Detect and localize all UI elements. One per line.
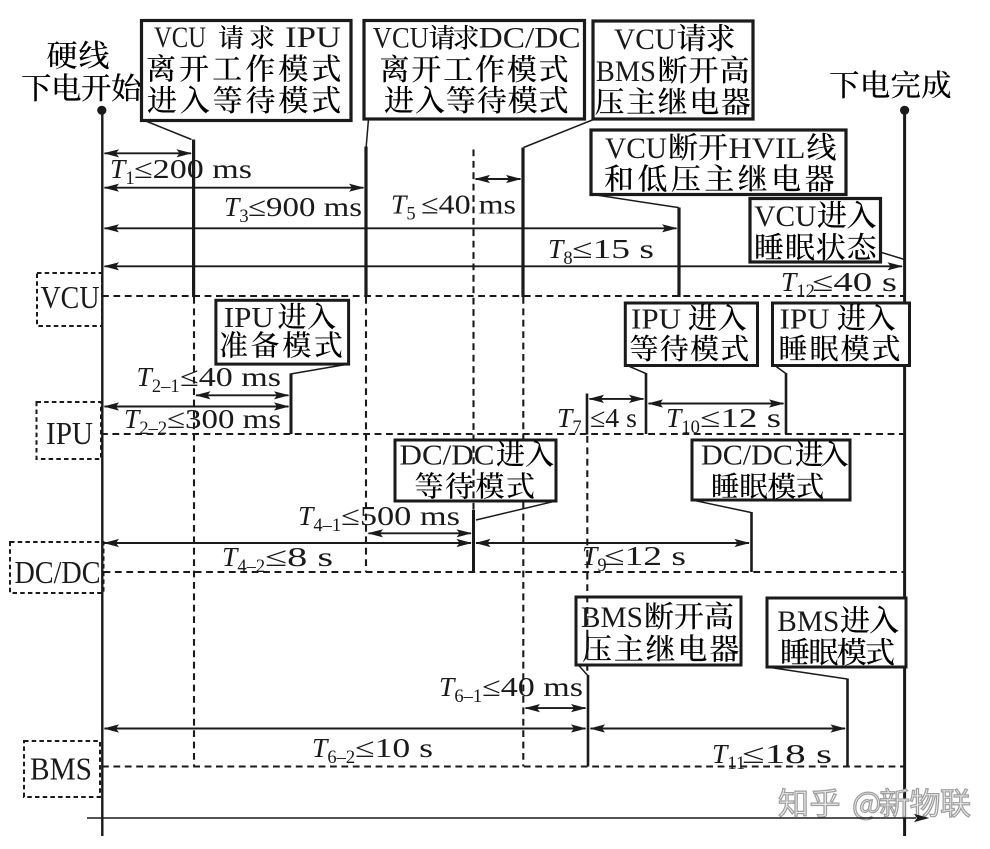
wire: DC/DC row dashed baseline <box>104 571 905 573</box>
tick: IPU wait event (x=646) <box>645 373 648 434</box>
tick: DC/DC sleep event (x=751.5) <box>750 512 753 572</box>
arrow T2-1 <box>196 394 289 396</box>
svg-text:≤40 ms: ≤40 ms <box>421 189 516 220</box>
svg-text:HVIL: HVIL <box>729 132 806 165</box>
wire: connector B11 to BMS relay tick <box>579 665 588 675</box>
arrow T6-1 <box>526 707 586 709</box>
wire: IPU row dashed baseline <box>101 433 905 435</box>
svg-text:IPU: IPU <box>224 302 274 334</box>
svg-text:VCU: VCU <box>754 200 816 233</box>
arrow T1 <box>105 152 192 154</box>
box B12: BMS enters sleep mode <box>767 598 906 667</box>
svg-text:≤40 ms: ≤40 ms <box>482 671 583 702</box>
watermark zhihu @xinwulian <box>779 788 970 820</box>
box B1: VCU requests IPU leave work mode enter wait mode <box>142 21 352 121</box>
wire: event line t1 dashed below VCU row <box>193 297 195 767</box>
svg-text:4–2: 4–2 <box>237 557 265 577</box>
svg-text:DC/DC: DC/DC <box>701 440 793 472</box>
wire: dashed below T7 tick <box>586 436 588 675</box>
box B5: VCU enters sleep state <box>750 199 881 263</box>
node complete dot <box>900 106 909 115</box>
svg-text:≤300 ms: ≤300 ms <box>167 403 281 434</box>
svg-text:VCU: VCU <box>154 21 206 54</box>
svg-text:2–1: 2–1 <box>152 377 180 397</box>
arrow T10 <box>649 403 784 405</box>
wire: event line t4 dashed below VCU row <box>522 297 524 767</box>
wire: event line t1 (x=193) solid <box>192 140 195 298</box>
svg-text:≤18 s: ≤18 s <box>742 738 832 769</box>
arrow T6-2 <box>105 728 586 730</box>
svg-text:VCU: VCU <box>41 279 100 315</box>
svg-text:≤12 s: ≤12 s <box>604 540 686 571</box>
svg-text:VCU: VCU <box>614 23 676 56</box>
wire: connector B10 to DC/DC sleep tick <box>694 500 752 512</box>
wire: connector B3 to event line t4 <box>524 120 594 148</box>
arrow T4-2 <box>105 542 472 544</box>
wire: dashed reference line above DC/DC wait tick (x=473.5) <box>472 150 474 511</box>
arrow T4-1 <box>369 532 472 534</box>
tick: T7 start boundary (x=587) <box>586 394 589 435</box>
svg-text:6–1: 6–1 <box>454 687 482 707</box>
arrow T12 <box>105 265 903 267</box>
svg-text:IPU: IPU <box>285 21 341 54</box>
wire: event line t3 dashed below VCU row <box>365 297 367 572</box>
wire: connector B8 to IPU sleep tick <box>776 366 786 374</box>
svg-text:VCU: VCU <box>605 132 667 165</box>
node BMS row label box <box>24 741 100 797</box>
wire: VCU row dashed baseline <box>102 295 905 297</box>
svg-text:2–2: 2–2 <box>139 419 167 439</box>
node IPU row label box <box>37 402 102 459</box>
svg-text:≤4 s: ≤4 s <box>590 402 637 433</box>
wire: event line t4 (x=523) solid <box>521 148 524 298</box>
tick: BMS sleep event (x=847.5) <box>846 679 849 767</box>
tick: BMS relay event (x=588) <box>587 675 590 767</box>
svg-text:4–1: 4–1 <box>313 516 341 536</box>
node VCU row label box <box>37 273 102 326</box>
wire: connector B9 to DC/DC wait tick <box>476 501 555 520</box>
box B8: IPU enters sleep mode <box>773 303 910 366</box>
svg-text:IPU: IPU <box>780 304 830 336</box>
node start dot <box>97 106 106 115</box>
arrow T3 <box>105 187 364 189</box>
wire: left main vertical rail <box>101 110 103 836</box>
box B7: IPU enters wait mode <box>625 303 757 366</box>
svg-text:DC/DC: DC/DC <box>479 22 581 55</box>
svg-text:6–2: 6–2 <box>327 748 355 768</box>
tick: DC/DC wait event (x=473.5) solid <box>472 510 475 572</box>
svg-text:DC/DC: DC/DC <box>400 440 495 472</box>
svg-text:BMS: BMS <box>777 605 839 638</box>
node DC/DC row label box <box>10 542 104 593</box>
box B2: VCU requests DC/DC leave work mode enter wait mode <box>364 21 585 120</box>
wire: bottom time axis with arrow <box>87 817 916 819</box>
arrow T2-2 <box>105 406 289 408</box>
box B6: IPU enters prepare mode <box>216 300 349 364</box>
wire: connector B12 to BMS sleep tick <box>769 667 848 679</box>
wire: connector B2 to event line t3 <box>366 119 368 147</box>
box B4: VCU opens HVIL line and LV main relay <box>591 130 846 195</box>
svg-text:≤15 s: ≤15 s <box>572 233 654 264</box>
wire: connector B4 to event line t7 <box>595 195 679 208</box>
svg-text:≤12 s: ≤12 s <box>700 402 781 433</box>
box B3: VCU requests BMS open HV main relay <box>593 21 753 119</box>
box B10: DC/DC enters sleep mode <box>692 440 850 500</box>
box B9: DC/DC enters wait mode <box>395 440 556 501</box>
wire: event line t7 (x=679) solid <box>677 208 680 298</box>
svg-text:BMS: BMS <box>581 601 643 634</box>
arrow T7 <box>590 398 644 400</box>
svg-text:IPU: IPU <box>46 415 93 451</box>
node label: hardwire power-down start <box>47 40 109 69</box>
svg-text:DC/DC: DC/DC <box>15 554 101 590</box>
svg-text:≤40 s: ≤40 s <box>812 266 897 297</box>
wire: event line t3 (x=366) solid <box>364 147 367 298</box>
tick: IPU prepare event (x=291) <box>290 374 293 435</box>
wire: connector B1 to event line t1 <box>145 121 192 140</box>
svg-text:VCU: VCU <box>373 22 429 55</box>
svg-text:≤8 s: ≤8 s <box>265 541 333 572</box>
svg-text:10: 10 <box>681 418 700 438</box>
svg-text:≤900 ms: ≤900 ms <box>248 191 362 222</box>
svg-text:≤200 ms: ≤200 ms <box>134 153 252 184</box>
svg-text:≤500 ms: ≤500 ms <box>341 500 460 531</box>
arrow T9 <box>476 542 749 544</box>
wire: connector B6 to IPU tick <box>291 364 348 374</box>
arrow T8 <box>105 227 677 229</box>
tick: IPU sleep event (x=786) <box>785 373 788 434</box>
svg-text:IPU: IPU <box>631 304 681 336</box>
box B11: BMS opens HV main relay <box>576 597 741 665</box>
svg-text:BMS: BMS <box>30 751 92 787</box>
arrow T11 <box>591 728 846 730</box>
svg-text:≤40 ms: ≤40 ms <box>180 361 281 392</box>
arrow T5 <box>476 178 521 180</box>
svg-text:≤10 s: ≤10 s <box>355 732 433 763</box>
svg-text:5: 5 <box>406 205 415 225</box>
svg-text:7: 7 <box>572 418 581 438</box>
wire: connector B7 to IPU wait tick <box>629 366 646 374</box>
wire: BMS row dashed baseline <box>102 765 905 767</box>
node label: power-down complete <box>830 70 950 98</box>
svg-text:BMS: BMS <box>596 55 656 88</box>
wire: right main vertical rail <box>903 110 906 836</box>
wire: connector B5 to right rail <box>881 252 905 259</box>
